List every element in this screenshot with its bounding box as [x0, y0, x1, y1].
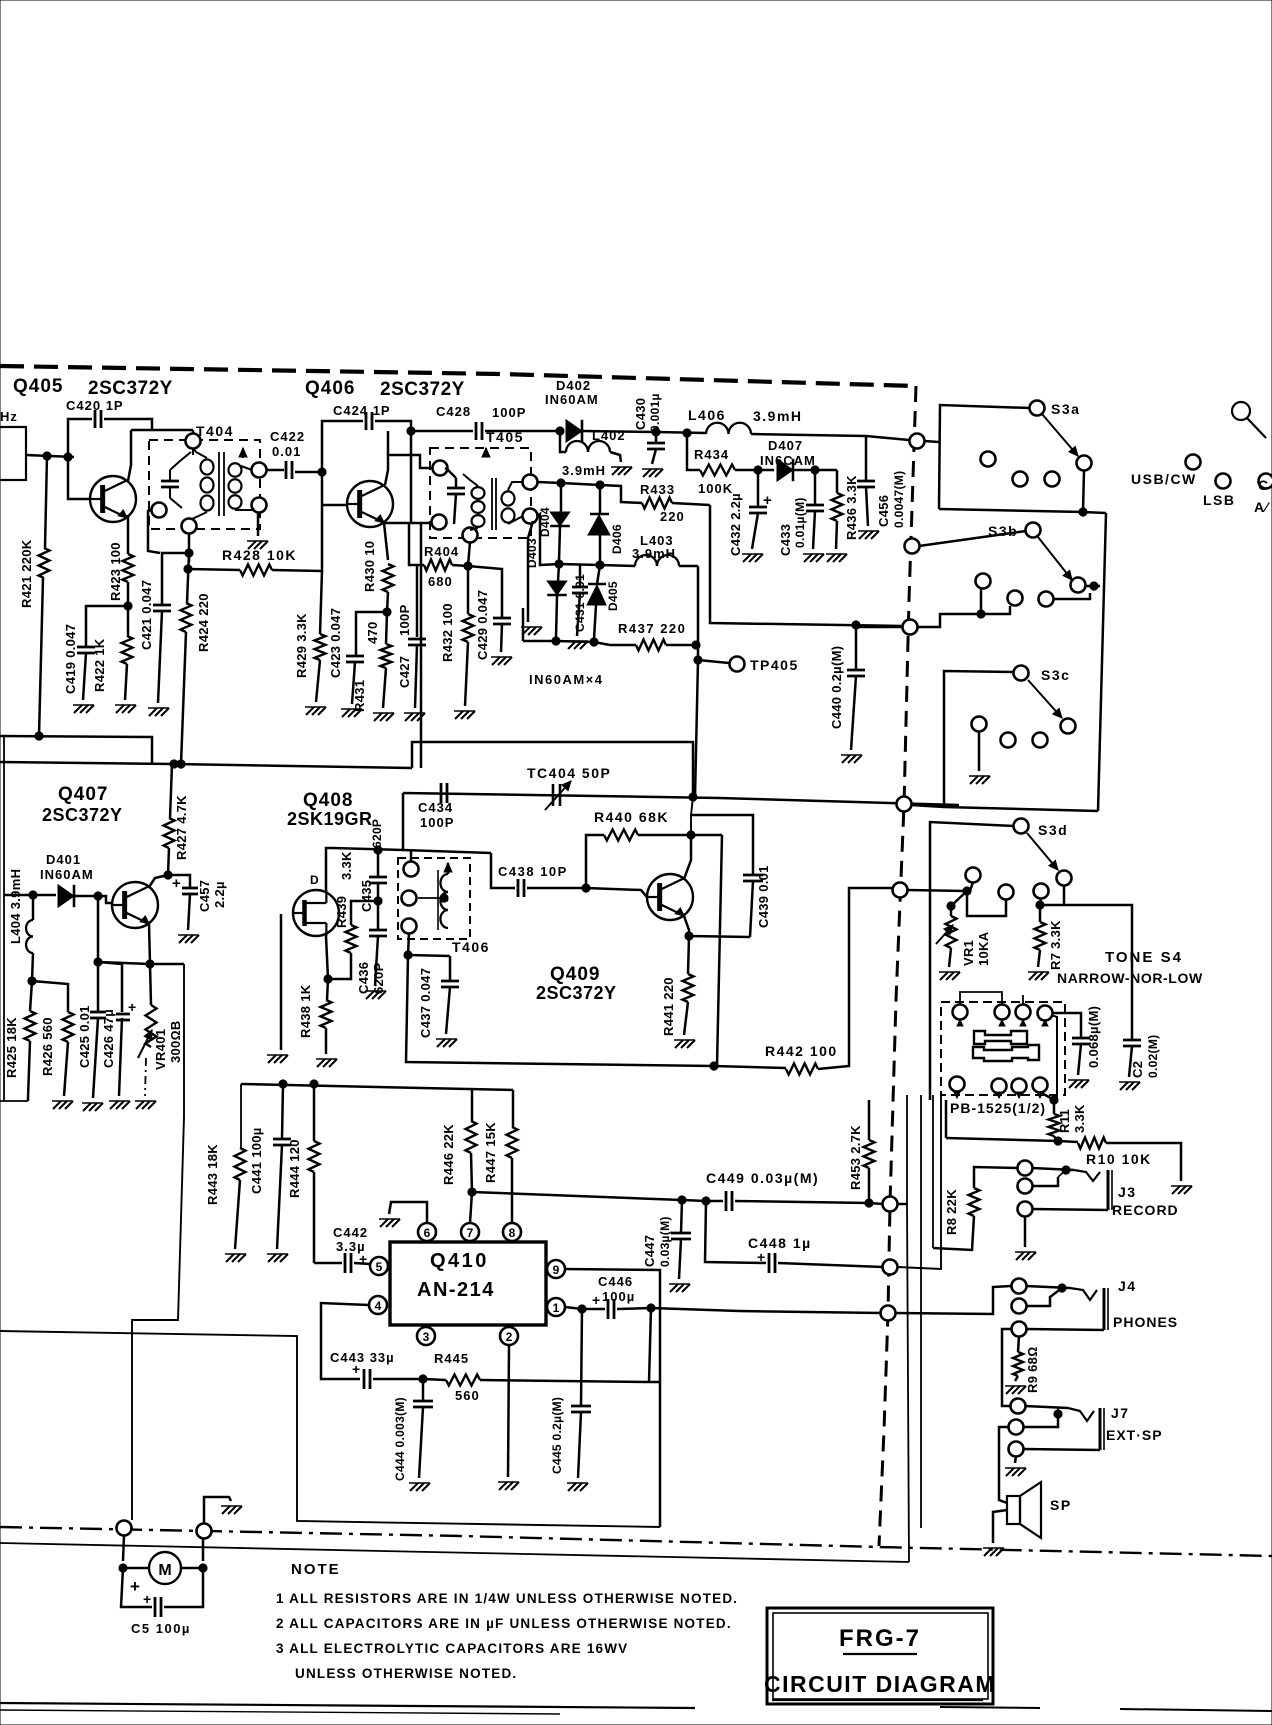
left edge rail	[3, 737, 5, 1101]
junction	[702, 1197, 710, 1205]
junction	[419, 1375, 427, 1383]
junction	[683, 429, 691, 437]
svg-text:C443 33µ: C443 33µ	[330, 1350, 395, 1365]
audio section box left edge	[0, 1331, 660, 1527]
ground	[940, 972, 948, 980]
svg-text:C422: C422	[270, 429, 305, 444]
svg-text:C5 100µ: C5 100µ	[131, 1621, 191, 1636]
svg-text:0.0047(M): 0.0047(M)	[892, 471, 906, 528]
jack sleeve bar	[1107, 1170, 1110, 1210]
wire pin7 to R446	[470, 1192, 472, 1223]
junction	[678, 1196, 686, 1204]
ground	[568, 641, 576, 649]
dash-dot shield wire from VR401 wiper	[145, 1058, 146, 1096]
svg-text:0.01µ(M): 0.01µ(M)	[793, 497, 807, 548]
IC Q410 AN-214 body	[390, 1242, 546, 1325]
svg-text:R440 68K: R440 68K	[594, 809, 669, 825]
svg-text:C447: C447	[642, 1235, 657, 1267]
junction	[555, 560, 563, 568]
svg-text:Q408: Q408	[303, 790, 353, 811]
wire	[26, 455, 74, 457]
svg-text:C440 0.2µ(M): C440 0.2µ(M)	[829, 646, 844, 729]
junction	[94, 892, 102, 900]
svg-text:D401: D401	[46, 852, 81, 867]
svg-text:D406: D406	[610, 524, 624, 554]
switch S3c enclosure	[944, 671, 1014, 807]
wire to VR1	[951, 891, 967, 906]
svg-text:PHONES: PHONES	[1113, 1314, 1178, 1330]
wire T405 secondary to middle node	[537, 514, 559, 565]
junction	[164, 871, 172, 879]
jack sleeve bar	[1099, 1408, 1102, 1450]
svg-text:C419 0.047: C419 0.047	[63, 624, 78, 694]
svg-text:R425 18K: R425 18K	[4, 1017, 19, 1078]
svg-text:C429 0.047: C429 0.047	[475, 590, 490, 660]
svg-text:2 ALL CAPACITORS ARE IN µF: 2 ALL CAPACITORS ARE IN µF UNLESS OTHERW…	[276, 1616, 732, 1631]
wire diode ring top node	[537, 482, 600, 485]
ground jog at chassis	[204, 1497, 231, 1524]
wire collector out down to rail	[717, 835, 722, 1066]
switch contact	[1057, 871, 1072, 886]
svg-text:C433: C433	[778, 524, 793, 556]
svg-text:VR1: VR1	[961, 940, 976, 966]
PB-1525 contact arrows	[957, 1020, 963, 1026]
svg-text:2: 2	[506, 1330, 513, 1344]
wire collector Q406	[387, 431, 390, 455]
wire pin9 loop	[565, 1269, 660, 1382]
adjust tool icon top right	[1232, 402, 1250, 420]
svg-text:S3a: S3a	[1051, 401, 1080, 417]
svg-text:USB/CW: USB/CW	[1131, 471, 1197, 487]
wire to C2	[1064, 905, 1132, 1040]
ground	[248, 541, 256, 549]
svg-text:+: +	[130, 1577, 140, 1596]
junction	[582, 884, 590, 892]
wire diode ring bottom	[523, 641, 610, 645]
svg-text:PB-1525(1/2): PB-1525(1/2)	[950, 1100, 1046, 1116]
junction	[947, 902, 955, 910]
wire audio out to phones	[739, 1311, 881, 1313]
wire volume node	[98, 962, 184, 964]
ground	[222, 1506, 230, 1514]
svg-text:SP: SP	[1050, 1497, 1072, 1513]
ground	[522, 627, 530, 635]
wire collector bus Q405	[131, 429, 193, 432]
wire collector node to supply jog	[691, 797, 693, 835]
svg-text:R445: R445	[434, 1351, 469, 1366]
svg-text:C426 47µ: C426 47µ	[101, 1009, 116, 1068]
svg-text:R444 120: R444 120	[287, 1139, 302, 1198]
transistor Q407	[112, 882, 158, 928]
solid line under chassis line	[0, 1543, 909, 1562]
open circle border S3b row	[903, 620, 918, 635]
junction	[146, 960, 154, 968]
svg-text:A⁄: A⁄	[1254, 499, 1270, 515]
wire Q406 collector to T405	[385, 455, 433, 485]
svg-text:100P: 100P	[397, 604, 412, 636]
ground	[1016, 1252, 1024, 1260]
junction	[977, 610, 985, 618]
svg-text:C435: C435	[359, 880, 374, 912]
junction	[318, 468, 326, 476]
svg-text:3: 3	[423, 1330, 430, 1344]
svg-text:C444 0.003(M): C444 0.003(M)	[393, 1397, 407, 1481]
open circle border crossing C448	[883, 1260, 898, 1275]
junction	[852, 621, 860, 629]
svg-text:L406: L406	[688, 407, 726, 423]
svg-text:3.9mH: 3.9mH	[562, 463, 606, 478]
svg-text:+: +	[592, 1292, 600, 1308]
junction	[687, 831, 695, 839]
svg-text:3.3K: 3.3K	[339, 851, 354, 880]
main oscillator injection bus with C434/TC404	[403, 793, 959, 805]
wire S3 right rail	[1098, 513, 1106, 811]
svg-text:Q410: Q410	[430, 1250, 489, 1272]
svg-text:TONE S4: TONE S4	[1105, 949, 1183, 966]
svg-text:NOTE: NOTE	[291, 1561, 341, 1578]
junction	[689, 793, 697, 801]
transistor Q405	[90, 476, 136, 522]
svg-text:R428 10K: R428 10K	[222, 547, 297, 563]
svg-text:3.3K: 3.3K	[1072, 1104, 1087, 1133]
ground	[83, 1103, 91, 1111]
junction	[374, 846, 382, 854]
svg-text:C428: C428	[436, 404, 471, 419]
wire jog contact 2	[967, 891, 1006, 916]
svg-text:3.9mH: 3.9mH	[753, 408, 803, 424]
svg-text:C437 0.047: C437 0.047	[418, 968, 433, 1038]
PB-1525 slider bar glyphs	[974, 1031, 1027, 1044]
svg-text:M: M	[158, 1562, 171, 1579]
svg-text:2SC372Y: 2SC372Y	[88, 378, 173, 399]
svg-text:C425 0.01: C425 0.01	[77, 1005, 92, 1068]
svg-text:5: 5	[376, 1260, 383, 1274]
junction	[590, 638, 598, 646]
svg-text:R436 3.3K: R436 3.3K	[844, 475, 859, 540]
svg-text:C445 0.2µ(M): C445 0.2µ(M)	[550, 1397, 564, 1474]
junction	[578, 1305, 586, 1313]
ground	[268, 1254, 276, 1262]
svg-text:C: C	[1258, 477, 1269, 493]
junction	[557, 479, 565, 487]
wire tone top stubs	[960, 992, 1002, 1005]
svg-text:Q406: Q406	[305, 378, 355, 399]
wire emitter Q406	[384, 523, 388, 560]
wire jog to BFO supply	[412, 742, 693, 797]
supply rail wire B	[0, 762, 412, 768]
junction	[383, 608, 391, 616]
svg-text:D405: D405	[606, 581, 620, 611]
svg-text:S3c: S3c	[1041, 667, 1070, 683]
ground	[1120, 1082, 1128, 1090]
ground	[675, 1040, 683, 1048]
svg-text:9: 9	[553, 1263, 560, 1277]
FET Q408 2SK19GR	[293, 890, 339, 936]
wire S3b row	[903, 614, 981, 627]
open circle border S3b feed	[905, 539, 920, 554]
junction	[64, 453, 72, 461]
junction	[43, 452, 51, 460]
svg-text:620P: 620P	[370, 819, 384, 848]
PB-1525 top contact circles	[953, 1005, 968, 1020]
ground	[380, 1219, 388, 1227]
svg-text:J3: J3	[1118, 1184, 1137, 1200]
svg-text:FRG-7: FRG-7	[839, 1625, 921, 1652]
chassis dash-dot bottom line	[0, 1527, 1272, 1556]
svg-text:R447 15K: R447 15K	[483, 1122, 498, 1183]
ground	[374, 713, 382, 721]
wire to S3a feed	[866, 436, 909, 440]
svg-text:RECORD: RECORD	[1112, 1202, 1179, 1218]
junction	[374, 897, 382, 905]
ground	[366, 991, 374, 999]
svg-text:D403: D403	[525, 538, 539, 568]
svg-text:C449 0.03µ(M): C449 0.03µ(M)	[706, 1170, 819, 1186]
svg-text:2SC372Y: 2SC372Y	[42, 805, 123, 825]
ground	[410, 1483, 418, 1491]
pin 3	[417, 1327, 435, 1345]
wire T404 left terminal	[148, 510, 160, 553]
svg-text:1 ALL RESISTORS ARE IN 1/4W: 1 ALL RESISTORS ARE IN 1/4W UNLESS OTHER…	[276, 1591, 738, 1606]
svg-text:D402: D402	[556, 378, 591, 393]
svg-text:C423 0.047: C423 0.047	[328, 608, 343, 678]
svg-text:0.02(M): 0.02(M)	[1146, 1035, 1160, 1078]
svg-text:R433: R433	[640, 482, 675, 497]
junction	[468, 1188, 476, 1196]
test point TP405	[698, 660, 729, 663]
dashed enclosure top border	[0, 366, 916, 386]
junction	[694, 656, 702, 664]
wire pin9 node down to box bottom rail	[659, 1382, 662, 1527]
junction	[692, 641, 700, 649]
PB-1525 bottom contact circles	[950, 1077, 965, 1092]
svg-text:C424 1P: C424 1P	[333, 403, 391, 418]
svg-text:R429 3.3K: R429 3.3K	[294, 613, 309, 678]
ground	[74, 705, 82, 713]
svg-text:C456: C456	[876, 495, 891, 527]
ground	[1172, 1186, 1180, 1194]
junction	[404, 951, 412, 959]
wire C434 bus corner down to Q408 drain bus	[402, 793, 405, 849]
svg-text:C441 100µ: C441 100µ	[249, 1127, 264, 1194]
ground	[492, 657, 500, 665]
capacitor inside T405	[447, 487, 465, 490]
ground	[110, 1101, 118, 1109]
contact circles S3d row	[966, 868, 981, 883]
svg-text:Q407: Q407	[58, 784, 108, 805]
wire T406 top to drain bus	[410, 851, 413, 862]
ground	[1006, 1386, 1014, 1394]
junction	[35, 732, 43, 740]
open circle on border for osc bus	[897, 797, 912, 812]
svg-text:C430: C430	[633, 398, 648, 430]
junction	[710, 1062, 718, 1070]
junction	[1050, 1096, 1058, 1104]
junction	[1054, 1410, 1062, 1418]
svg-text:IN6CAM: IN6CAM	[760, 453, 816, 468]
junction	[440, 894, 448, 902]
wire T404 top to collector bus	[192, 430, 195, 434]
long bus verticals to bottom left	[906, 1095, 908, 1204]
jack sleeve bar	[1103, 1288, 1106, 1330]
svg-text:R439: R439	[334, 896, 349, 928]
svg-text:R427 4.7K: R427 4.7K	[174, 795, 189, 860]
svg-text:IN60AM: IN60AM	[545, 392, 599, 407]
junction	[552, 637, 560, 645]
ground	[842, 755, 850, 763]
svg-text:L404 3.9mH: L404 3.9mH	[8, 869, 23, 944]
svg-text:4: 4	[375, 1299, 382, 1313]
ground	[179, 935, 187, 943]
junction	[1058, 1284, 1066, 1292]
junction	[685, 932, 693, 940]
ground	[342, 709, 350, 717]
svg-text:TP405: TP405	[750, 657, 799, 673]
wire J7 to speaker	[999, 1427, 1009, 1503]
wire S3d row	[893, 883, 908, 898]
svg-text:620P: 620P	[371, 962, 386, 994]
wire collector Q405	[128, 430, 131, 481]
svg-text:0.001µ: 0.001µ	[648, 393, 662, 432]
wire pin6 ground loop	[389, 1202, 427, 1223]
jack tip	[1068, 1408, 1094, 1421]
audio bus to R443/R444 bias rail	[241, 1084, 513, 1090]
svg-text:7: 7	[467, 1226, 474, 1240]
ground	[670, 1284, 678, 1292]
svg-text:+: +	[172, 875, 181, 892]
junction	[184, 565, 192, 573]
svg-text:C457: C457	[197, 880, 212, 912]
jack tip	[1074, 1170, 1100, 1181]
wire to diode ring ground left	[528, 521, 533, 622]
svg-text:R437 220: R437 220	[618, 621, 686, 636]
wire pin4 loop to C443/R445	[321, 1303, 369, 1379]
wire BFO bottom rail	[406, 955, 714, 1066]
ground	[1029, 972, 1037, 980]
junction	[94, 958, 102, 966]
wire pin1 output	[565, 1307, 605, 1309]
svg-text:0.01: 0.01	[272, 444, 301, 459]
switch contact	[1061, 719, 1076, 734]
svg-text:IN60AM: IN60AM	[40, 867, 94, 882]
svg-text:LSB: LSB	[1203, 492, 1236, 508]
wire T405 bottom middle terminal	[468, 542, 470, 566]
open circle border crossing AF out	[881, 1306, 896, 1321]
svg-text:2.2µ: 2.2µ	[212, 881, 227, 908]
svg-text:C421 0.047: C421 0.047	[139, 580, 154, 650]
switch contact	[1077, 456, 1092, 471]
junction	[652, 428, 660, 436]
svg-text:680: 680	[428, 574, 453, 589]
junction	[596, 481, 604, 489]
wire collector Q407	[149, 875, 168, 887]
ground	[970, 776, 978, 784]
svg-text:R431: R431	[352, 680, 367, 712]
AGC wire upper	[0, 736, 152, 763]
junction	[963, 887, 971, 895]
svg-text:CIRCUIT DIAGRAM: CIRCUIT DIAGRAM	[764, 1671, 996, 1697]
junction	[754, 466, 762, 474]
dashed enclosure right border	[879, 386, 916, 1546]
svg-text:S3d: S3d	[1038, 822, 1068, 838]
svg-text:R9 68Ω: R9 68Ω	[1025, 1347, 1040, 1393]
svg-text:R404: R404	[424, 544, 459, 559]
ground	[568, 1483, 576, 1491]
wire base Q409	[586, 888, 647, 897]
svg-text:R421 220K: R421 220K	[19, 539, 34, 608]
svg-text:D407: D407	[768, 438, 803, 453]
wire emitter Q409	[684, 916, 689, 936]
svg-text:R10 10K: R10 10K	[1086, 1151, 1152, 1167]
svg-text:R446 22K: R446 22K	[441, 1124, 456, 1185]
ground	[149, 708, 157, 716]
junction	[1062, 1166, 1070, 1174]
svg-text:R8 22K: R8 22K	[944, 1189, 959, 1235]
pin 5	[370, 1257, 388, 1275]
pin 1	[547, 1298, 565, 1316]
svg-text:TC404 50P: TC404 50P	[527, 765, 611, 781]
wire T406 bottom terminal	[408, 933, 409, 955]
page bottom edge lines	[0, 1703, 695, 1708]
pin 8	[503, 1223, 521, 1241]
svg-text:R432 100: R432 100	[440, 603, 455, 662]
junction	[324, 975, 332, 983]
svg-text:3 ALL ELECTROLYTIC CAPACITOR: 3 ALL ELECTROLYTIC CAPACITORS ARE 16WV	[276, 1641, 628, 1656]
svg-text:300ΩB: 300ΩB	[168, 1020, 183, 1063]
ground	[268, 1055, 276, 1063]
svg-text:R434: R434	[694, 447, 729, 462]
ground	[984, 1548, 992, 1556]
junction	[1036, 901, 1044, 909]
svg-text:6: 6	[424, 1226, 431, 1240]
open circle border crossing C449	[883, 1197, 898, 1212]
wire	[410, 431, 413, 522]
wire R446 node to C447/C449 rail	[472, 1192, 723, 1201]
transistor Q406	[347, 481, 393, 527]
pin 2	[500, 1327, 518, 1345]
wire T404 secondary bottom to ground	[257, 512, 260, 536]
svg-text:0.03µ(M): 0.03µ(M)	[658, 1216, 672, 1267]
svg-text:2SC372Y: 2SC372Y	[536, 983, 617, 1003]
svg-text:J4: J4	[1118, 1278, 1137, 1294]
svg-text:S3b: S3b	[988, 523, 1018, 539]
ground	[643, 469, 651, 477]
wire volume output down-left rail	[132, 964, 184, 1520]
ground	[804, 554, 812, 562]
wire gate Q408 to ground	[280, 914, 283, 1050]
svg-text:C2: C2	[1130, 1061, 1145, 1078]
junction	[647, 1304, 655, 1312]
junction	[1079, 508, 1087, 516]
ground	[136, 1101, 144, 1109]
wire source Q408	[326, 936, 328, 979]
wire base Q406	[321, 472, 324, 571]
wire base Q405	[68, 457, 90, 499]
switch contact	[1071, 578, 1086, 593]
transistor Q409	[647, 874, 693, 920]
svg-text:R7 3.3K: R7 3.3K	[1048, 920, 1063, 970]
ground	[612, 467, 620, 475]
junction	[199, 1564, 207, 1572]
contact circles S3c row	[972, 717, 987, 732]
wire S3b row to border circle	[856, 626, 903, 629]
wire J4 to J7	[1002, 1329, 1012, 1406]
wire to C439 top	[691, 815, 753, 875]
ground	[306, 707, 314, 715]
svg-text:10KA: 10KA	[976, 931, 991, 966]
junction	[170, 760, 178, 768]
ground	[317, 1059, 325, 1067]
